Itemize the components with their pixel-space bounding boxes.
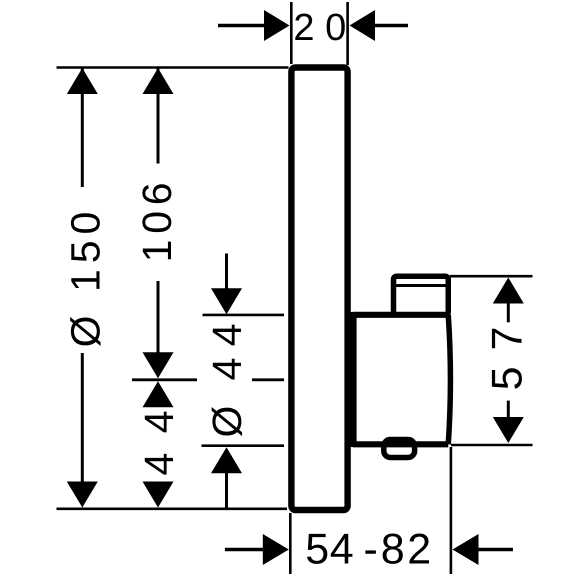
axis tick across 106/44 junction xyxy=(132,378,197,381)
54-82 left arrow tail xyxy=(225,548,263,552)
44-dim top arrowhead (hourglass lower) xyxy=(143,381,174,407)
svg-text:106: 106 xyxy=(134,177,180,263)
bottom extension line from plate bottom-left xyxy=(57,507,288,510)
20-dim left arrowhead xyxy=(264,10,290,41)
57-dim top arrowhead xyxy=(493,278,524,304)
44-dim bottom arrowhead xyxy=(143,482,174,508)
axis centerline dash xyxy=(252,378,284,381)
extension line right of 20-dim xyxy=(346,2,349,65)
svg-text:5 7: 5 7 xyxy=(484,325,532,391)
dia44 bottom extension line xyxy=(202,444,285,447)
dim line 106 lower segment xyxy=(157,281,160,355)
dim line 150 lower segment xyxy=(81,353,84,483)
54-82 right extension line xyxy=(450,447,453,574)
knob cap inner line xyxy=(396,284,446,287)
top extension line from plate top-left xyxy=(57,66,289,69)
57-dim upper segment xyxy=(507,302,510,322)
106-dim bottom arrowhead (hourglass upper) xyxy=(143,352,174,378)
dim line 106 upper segment xyxy=(157,68,160,164)
dia44-dim bottom arrowhead xyxy=(211,447,242,473)
plate (wall plate side view) xyxy=(291,68,347,511)
57 top extension line xyxy=(450,275,533,278)
dim line 150 upper segment xyxy=(81,68,84,187)
20-dim right arrow tail xyxy=(375,24,408,28)
extension line left of 20-dim xyxy=(290,2,293,64)
54-82 left extension line xyxy=(289,513,292,574)
svg-text:4 4: 4 4 xyxy=(136,407,182,476)
57-dim lower segment xyxy=(507,401,510,418)
knob cap xyxy=(394,276,449,315)
svg-text:54-82: 54-82 xyxy=(305,525,431,573)
54-82 right arrowhead xyxy=(453,534,479,565)
20-dim left arrow tail xyxy=(218,24,265,28)
150-dim top arrowhead xyxy=(67,68,98,94)
20-dim right arrowhead xyxy=(350,10,376,41)
dia44 top extension line xyxy=(203,314,285,317)
57-dim bottom arrowhead xyxy=(493,417,524,443)
57 bottom extension line xyxy=(451,444,533,447)
knob bottom tab xyxy=(384,440,415,458)
150-dim bottom arrowhead xyxy=(67,482,98,508)
svg-text:4 4: 4 4 xyxy=(204,323,250,380)
knob body xyxy=(353,315,448,445)
dia44-dim upper tail segment xyxy=(225,254,228,292)
svg-text:Ø 150: Ø 150 xyxy=(63,206,109,348)
54-82 left arrowhead xyxy=(263,534,289,565)
54-82 right arrow tail xyxy=(478,548,513,552)
106-dim top arrowhead xyxy=(143,68,174,94)
knob body right edge (curved) xyxy=(448,315,450,445)
svg-text:Ø: Ø xyxy=(204,406,250,438)
svg-text:2 0: 2 0 xyxy=(293,7,346,49)
dia44-dim lower tail segment xyxy=(225,472,228,509)
dia44-dim top arrowhead xyxy=(211,288,242,314)
